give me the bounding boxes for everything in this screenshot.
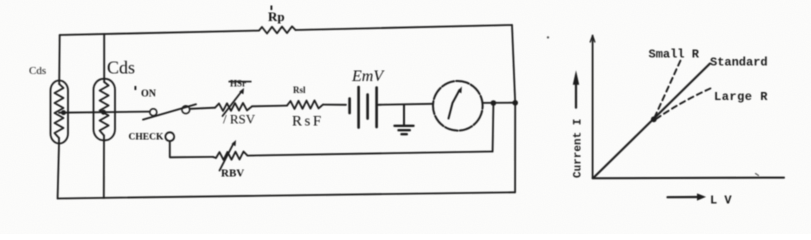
wire top edge right segment <box>296 25 513 30</box>
wire second vertical upper <box>103 34 105 82</box>
photoresistor Cds2 zigzag <box>100 82 109 136</box>
junction dot A <box>61 110 66 115</box>
svg-text:ON: ON <box>141 89 157 100</box>
junction dot D <box>512 100 518 106</box>
label Rp <box>268 6 285 25</box>
potentiometer RSV zigzag <box>215 103 252 111</box>
resistor RsF zigzag <box>287 100 323 109</box>
wire RSV to RsF <box>252 105 287 108</box>
svg-text:L V: L V <box>710 194 732 208</box>
svg-text:CHECK: CHECK <box>129 133 164 143</box>
svg-text:Small R: Small R <box>649 48 700 62</box>
wire left edge lower <box>58 138 59 199</box>
switch ON blade <box>143 104 196 119</box>
potentiometer RBV zigzag <box>213 152 248 160</box>
photoresistor Cds2 envelope <box>94 79 116 141</box>
svg-text:HSr: HSr <box>230 79 246 89</box>
speck <box>547 36 549 38</box>
label ON <box>135 86 157 100</box>
svg-text:Cds: Cds <box>107 58 135 78</box>
graph y axis <box>592 36 594 179</box>
svg-text:Rp: Rp <box>268 9 285 24</box>
wire bottom edge <box>58 192 515 198</box>
ground <box>395 105 414 134</box>
label RSV <box>223 112 256 127</box>
svg-text:Cds: Cds <box>29 65 46 77</box>
potentiometer RBV arrow <box>220 144 234 171</box>
junction dot B <box>101 110 106 115</box>
photoresistor Cds1 envelope <box>51 81 69 144</box>
graph x axis <box>593 177 784 180</box>
svg-text:/ RSV: / RSV <box>223 112 256 127</box>
wire meter to right edge <box>483 102 516 104</box>
wire middle horizontal <box>59 112 150 113</box>
svg-text:RsF: RsF <box>292 114 324 130</box>
wire return horizontal <box>248 152 493 156</box>
tick on x axis <box>756 174 759 176</box>
switch ON second terminal <box>182 106 190 114</box>
photoresistor Cds1 zigzag <box>55 84 64 138</box>
current axis arrow <box>575 83 577 108</box>
curve small R dashed <box>655 61 681 118</box>
wire second vertical lower <box>103 136 105 199</box>
switch CHECK terminal <box>165 132 174 141</box>
svg-text:EmV: EmV <box>351 68 385 85</box>
svg-text:Standard: Standard <box>710 56 768 70</box>
junction dot C <box>491 100 497 106</box>
svg-text:Current I: Current I <box>573 119 585 178</box>
resistor Rp <box>259 26 296 33</box>
branch point dot <box>651 116 657 122</box>
meter M <box>426 74 490 138</box>
curve standard <box>595 64 711 177</box>
switch ON pivot terminal <box>150 109 157 116</box>
meter needle <box>449 90 460 119</box>
wire battery to meter <box>378 104 433 105</box>
LV axis arrow <box>668 196 700 198</box>
curve large R dashed <box>656 87 713 119</box>
wire left edge upper <box>58 35 61 84</box>
svg-text:Rsl: Rsl <box>293 85 306 95</box>
wire RBV to CHECK <box>170 141 213 157</box>
svg-text:Large R: Large R <box>714 90 768 104</box>
wire top edge left segment <box>60 31 259 35</box>
label RSV struck note <box>229 79 252 89</box>
svg-text:RBV: RBV <box>221 168 244 180</box>
battery EmV <box>350 87 377 128</box>
wire return vertical <box>492 103 495 152</box>
potentiometer RSV arrow <box>223 92 242 117</box>
wire right edge <box>512 25 515 192</box>
wire RsF to battery <box>323 104 346 106</box>
wire switch to RSV <box>190 108 215 109</box>
